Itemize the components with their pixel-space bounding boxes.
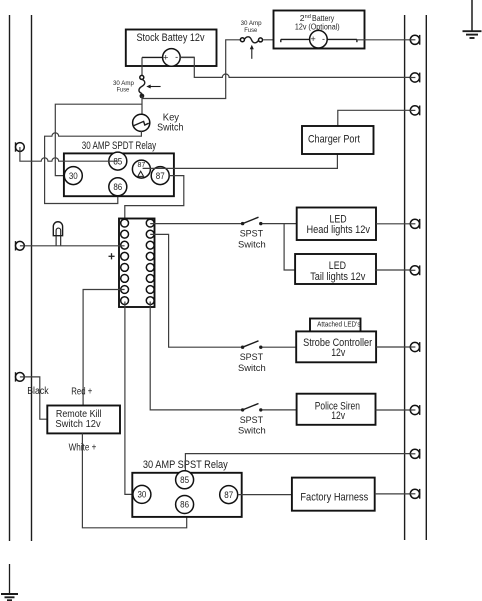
svg-text:Factory Harness: Factory Harness xyxy=(300,491,368,503)
svg-text:Fuse: Fuse xyxy=(244,27,257,34)
terminal circles left column xyxy=(121,219,129,304)
connector R6 xyxy=(410,342,420,352)
wire tail lights to bus connector xyxy=(375,269,415,271)
svg-text:85: 85 xyxy=(180,475,189,485)
connector R8 xyxy=(410,449,420,459)
svg-text:30 AMP SPDT Relay: 30 AMP SPDT Relay xyxy=(82,140,157,152)
wire left connector3 Black to remote kill switch xyxy=(24,377,47,419)
svg-text:Head lights 12v: Head lights 12v xyxy=(307,224,371,236)
connector R2 xyxy=(410,73,420,83)
svg-text:Switch: Switch xyxy=(238,363,266,373)
fuse F2 arrow xyxy=(250,45,254,59)
svg-text:SPST: SPST xyxy=(240,415,264,425)
wire relay1 87A to charger port xyxy=(143,154,338,168)
wire node left feed to relay1 pin30 xyxy=(55,104,142,175)
key switch xyxy=(133,114,150,131)
svg-text:-: - xyxy=(322,34,325,44)
svg-text:Tail lights 12v: Tail lights 12v xyxy=(310,271,366,283)
wire relay2 pin85 to bus connector xyxy=(185,454,415,472)
connector R5 xyxy=(410,265,420,275)
wire terminal row2 right to SPST switch2 xyxy=(150,234,241,347)
relay1 box xyxy=(64,153,174,196)
svg-text:30: 30 xyxy=(69,171,78,181)
lamp indicator xyxy=(53,222,62,246)
wire terminal row1 right to SPST switch1 xyxy=(150,223,241,225)
attached LEDs box xyxy=(310,319,361,332)
connector R3 xyxy=(410,106,420,116)
svg-text:nd: nd xyxy=(305,14,311,20)
wire relay1 87 to terminal row1 left xyxy=(125,176,184,223)
police siren box xyxy=(297,394,376,425)
svg-text:87: 87 xyxy=(224,490,233,500)
fuse F2 30 Amp (to 2nd battery) xyxy=(240,37,262,43)
svg-text:SPST: SPST xyxy=(240,229,264,239)
relay2 pin 86 xyxy=(176,496,194,514)
relay1 pin 87A xyxy=(132,160,150,178)
connector R7 xyxy=(410,405,420,415)
svg-text:Switch: Switch xyxy=(157,123,183,134)
wire terminal row8 left to relay2 pin30 xyxy=(125,302,133,495)
SPST switch 2 xyxy=(241,341,263,349)
wire remote kill White+ to relay2 pin86 xyxy=(82,433,186,527)
remote kill switch box xyxy=(47,406,120,434)
svg-text:Fuse: Fuse xyxy=(117,87,130,94)
wire battery1 plus down to fuse xyxy=(141,57,143,75)
LED head lights box xyxy=(297,208,376,241)
wire switch1 to LED head lights and branch to tail lights xyxy=(263,223,297,225)
wire terminal row7 left to remote kill Red+ xyxy=(83,290,125,406)
wire switch2 to strobe controller xyxy=(263,346,297,348)
wire police siren to bus connector xyxy=(376,409,416,411)
connector R1 xyxy=(410,35,420,45)
svg-text:+: + xyxy=(163,52,168,62)
left connector 1 xyxy=(16,142,25,151)
svg-text:Attached LED's: Attached LED's xyxy=(317,322,361,329)
terminal circles right column xyxy=(146,219,154,304)
charger port box xyxy=(302,126,374,154)
svg-text:White +: White + xyxy=(69,443,97,454)
relay1 pin 85 xyxy=(109,152,127,170)
svg-text:86: 86 xyxy=(113,182,122,192)
ground (top right) xyxy=(463,0,482,38)
svg-text:Switch: Switch xyxy=(238,426,266,436)
strobe controller box xyxy=(296,331,376,362)
relay2 pin 30 xyxy=(133,485,151,503)
svg-text:30: 30 xyxy=(137,490,146,500)
svg-text:Stock Battey 12v: Stock Battey 12v xyxy=(137,32,205,44)
battery 2nd Battery box xyxy=(274,11,365,49)
svg-text:86: 86 xyxy=(180,500,189,510)
relay1 pin 87 xyxy=(151,167,169,185)
battery symbol B2 xyxy=(281,30,357,48)
left connector 3 xyxy=(16,372,25,381)
relay1 pin 86 xyxy=(109,178,127,196)
wire head lights to bus connector xyxy=(376,223,415,225)
right bus line 1 xyxy=(404,15,406,540)
wire switch3 to police siren xyxy=(263,409,297,411)
wire factory harness to bus connector xyxy=(375,493,416,495)
wire node right then up to 2nd battery fuse xyxy=(142,40,240,99)
svg-text:SPST: SPST xyxy=(240,352,264,362)
relay2 pin 87 xyxy=(220,486,238,504)
wire battery1 minus to bus connector (hop over x225.7) xyxy=(180,57,415,77)
battery symbol B1 xyxy=(142,49,194,67)
svg-text:12v: 12v xyxy=(331,347,345,359)
wire strobe controller to bus connector xyxy=(376,346,415,348)
ground (bottom left) xyxy=(1,564,18,600)
SPST switch 1 xyxy=(241,217,263,225)
connector R4 xyxy=(410,219,420,229)
svg-text:Switch 12v: Switch 12v xyxy=(55,419,101,430)
svg-text:-: - xyxy=(175,52,178,62)
wire battery2 minus to bus connector xyxy=(357,39,415,41)
wire fuse1 bottom node to key switch xyxy=(141,96,143,114)
relay1 pin 30 xyxy=(64,167,82,185)
battery Stock Battery box xyxy=(126,30,217,67)
SPST switch 3 xyxy=(241,404,263,412)
right bus line 2 xyxy=(425,15,427,540)
wire relay2 87 to factory harness xyxy=(238,494,292,496)
svg-text:Switch: Switch xyxy=(238,239,266,249)
left connector 2 xyxy=(16,241,25,250)
label plus sign xyxy=(109,253,115,259)
wire terminal row8 right to SPST switch3 xyxy=(150,302,241,410)
terminal block xyxy=(119,219,155,308)
svg-text:+: + xyxy=(310,34,315,44)
svg-text:Red +: Red + xyxy=(71,387,92,398)
svg-text:Charger Port: Charger Port xyxy=(308,134,361,146)
LED tail lights box xyxy=(295,254,376,284)
left bus line 1 xyxy=(9,15,11,541)
wire left connector2 to terminal row3 left, with lamp stem xyxy=(24,245,124,247)
relay2 pin 85 xyxy=(176,471,194,489)
wire key switch to relay1 pin86 (hop over x55.3) xyxy=(45,131,142,203)
fuse F1 30 Amp xyxy=(139,75,145,98)
wire charger port to bus connector xyxy=(338,110,415,126)
connector R9 xyxy=(410,489,420,499)
svg-text:Black: Black xyxy=(27,386,49,397)
relay2 box xyxy=(132,473,241,517)
wire fuse2 to 2nd battery xyxy=(263,39,281,41)
wire left connector1 to relay1 pin85 (hops over x44.6,x55.3) xyxy=(20,151,118,161)
svg-text:12v: 12v xyxy=(331,410,345,422)
svg-text:87: 87 xyxy=(156,171,165,181)
factory harness box xyxy=(292,478,375,511)
fuse F1 arrow xyxy=(146,85,160,89)
left bus line 2 xyxy=(31,15,33,541)
